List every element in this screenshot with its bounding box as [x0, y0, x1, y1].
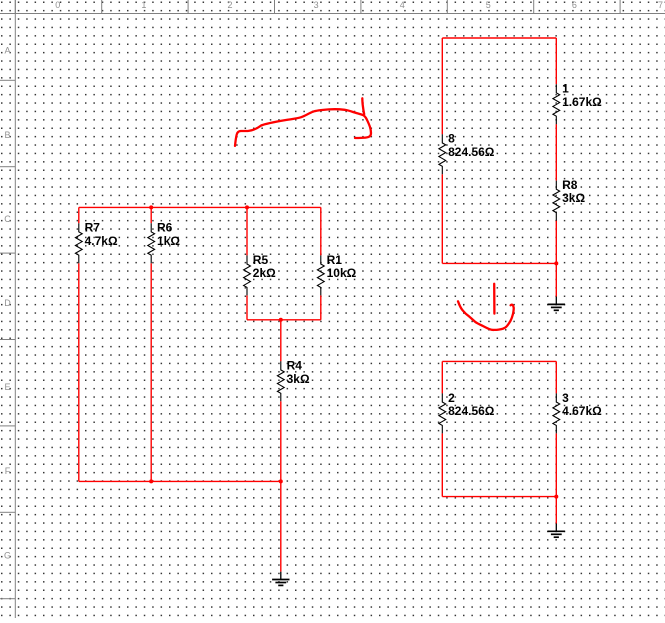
junction R6 top: [149, 205, 153, 209]
resistor R5 symbol: [244, 255, 251, 295]
svg-text:3kΩ: 3kΩ: [562, 191, 585, 205]
svg-text:824.56Ω: 824.56Ω: [448, 404, 495, 418]
wire: right-bottom circuit top bus: [442, 360, 556, 362]
resistor R6 symbol: [148, 223, 155, 263]
wire: R#3 top stub: [555, 361, 557, 393]
ruler left tick 5: [0, 511, 15, 513]
svg-text:3: 3: [314, 0, 319, 10]
resistor 1 symbol: [553, 84, 560, 124]
svg-text:824.56Ω: 824.56Ω: [448, 145, 495, 159]
wire: R#1 to R8 link: [555, 124, 557, 180]
svg-text:G: G: [4, 550, 11, 560]
wire: R5 bottom stub: [246, 295, 248, 319]
junction R6 bottom: [149, 479, 153, 483]
ruler left tick 0: [0, 79, 15, 81]
wire: left circuit bottom bus: [79, 480, 281, 482]
svg-text:2: 2: [448, 391, 455, 405]
svg-text:3kΩ: 3kΩ: [287, 372, 310, 386]
wire: R7 bottom to bottom bus: [78, 263, 80, 481]
wire: R6 bottom to bottom bus: [150, 263, 152, 481]
svg-text:10kΩ: 10kΩ: [327, 266, 357, 280]
svg-text:B: B: [4, 130, 10, 140]
ruler top tick 0: [14, 0, 16, 14]
svg-text:3: 3: [562, 391, 569, 405]
pen stroke: swoosh vertical tail: [362, 98, 364, 114]
ruler top tick 1: [101, 0, 103, 14]
svg-text:8: 8: [448, 132, 455, 146]
svg-text:D: D: [4, 298, 11, 308]
svg-text:0: 0: [55, 0, 60, 10]
junction right-bottom ground: [554, 495, 558, 499]
ground right-bottom: [548, 524, 565, 538]
svg-text:A: A: [4, 46, 10, 56]
ground left circuit: [272, 572, 289, 586]
ruler top tick 2: [187, 0, 189, 14]
junction R4 mid: [279, 318, 283, 322]
svg-text:4: 4: [400, 0, 405, 10]
resistor 3 symbol: [553, 393, 560, 433]
ruler left tick 2: [0, 252, 15, 254]
svg-text:7: 7: [658, 0, 663, 10]
resistor 8 symbol: [439, 134, 446, 174]
ruler top band border: [0, 13, 665, 15]
resistor R1 symbol: [317, 255, 324, 295]
wire: R6 top stub: [150, 207, 152, 223]
resistor 2 symbol: [439, 393, 446, 433]
ruler top tick 5: [446, 0, 448, 14]
wire: R#2 top stub: [441, 361, 443, 393]
wire: R4 bottom to bottom bus: [280, 401, 282, 481]
svg-text:1.67kΩ: 1.67kΩ: [562, 95, 602, 109]
wire: right-top circuit bottom bus: [442, 262, 556, 264]
ruler top tick 6: [533, 0, 535, 14]
svg-text:2: 2: [227, 0, 232, 10]
svg-text:1: 1: [562, 82, 569, 96]
wire: left circuit top bus: [79, 206, 321, 208]
ruler left tick 1: [0, 166, 15, 168]
svg-text:4.7kΩ: 4.7kΩ: [85, 234, 118, 248]
svg-text:F: F: [5, 466, 11, 476]
wire: left circuit ground drop: [280, 481, 282, 571]
ruler top tick 4: [360, 0, 362, 14]
svg-text:1kΩ: 1kΩ: [157, 234, 180, 248]
wire: R#3 bottom to bottom bus: [555, 433, 557, 496]
ground right-top: [548, 297, 565, 311]
svg-text:4.67kΩ: 4.67kΩ: [562, 404, 602, 418]
svg-text:R8: R8: [562, 178, 578, 192]
svg-text:1: 1: [141, 0, 146, 10]
svg-text:R5: R5: [253, 253, 269, 267]
pen stroke: swoosh arc top middle: [235, 109, 371, 146]
wire: R1 top stub: [320, 207, 322, 255]
wire: mid bus R5-R1: [247, 319, 321, 321]
junction right-top ground: [554, 261, 558, 265]
wire: R#8 top stub: [441, 38, 443, 134]
wire: R4 top stub: [280, 320, 282, 362]
pen stroke: arrow shaft right middle: [493, 284, 495, 314]
svg-text:R4: R4: [287, 359, 303, 373]
junction R4 bottom: [279, 479, 283, 483]
svg-text:5: 5: [486, 0, 491, 10]
svg-text:R1: R1: [327, 253, 343, 267]
ruler left band border: [14, 0, 16, 618]
wire: R8 bottom stub: [555, 221, 557, 264]
wire: right-bottom circuit bottom bus: [442, 496, 556, 498]
svg-text:2kΩ: 2kΩ: [253, 266, 276, 280]
pen stroke: smile arc right middle: [458, 301, 514, 330]
wire: R#2 bottom to bottom bus: [441, 433, 443, 496]
ruler left tick 3: [0, 339, 15, 341]
ruler top tick 3: [274, 0, 276, 14]
wire: right-top ground drop: [555, 263, 557, 296]
wire: right-top circuit top bus: [442, 37, 556, 39]
wire: R1 bottom stub: [320, 295, 322, 319]
wire: R#1 top stub: [555, 38, 557, 84]
resistor R8 symbol: [553, 181, 560, 221]
junction R5 top: [245, 205, 249, 209]
ruler left tick 6: [0, 598, 15, 600]
wire: R#8 bottom to bottom bus: [441, 174, 443, 263]
wire: right-bottom ground drop: [555, 497, 557, 524]
resistor R4 symbol: [277, 361, 284, 401]
ruler top tick 7: [619, 0, 621, 14]
svg-text:E: E: [4, 382, 10, 392]
wire: R7 top stub: [78, 207, 80, 223]
ruler left tick 4: [0, 425, 15, 427]
resistor R7 symbol: [75, 223, 82, 263]
svg-text:6: 6: [572, 0, 577, 10]
svg-text:R7: R7: [85, 221, 101, 235]
svg-text:R6: R6: [157, 221, 173, 235]
svg-text:C: C: [4, 214, 11, 224]
wire: R5 top stub: [246, 207, 248, 255]
